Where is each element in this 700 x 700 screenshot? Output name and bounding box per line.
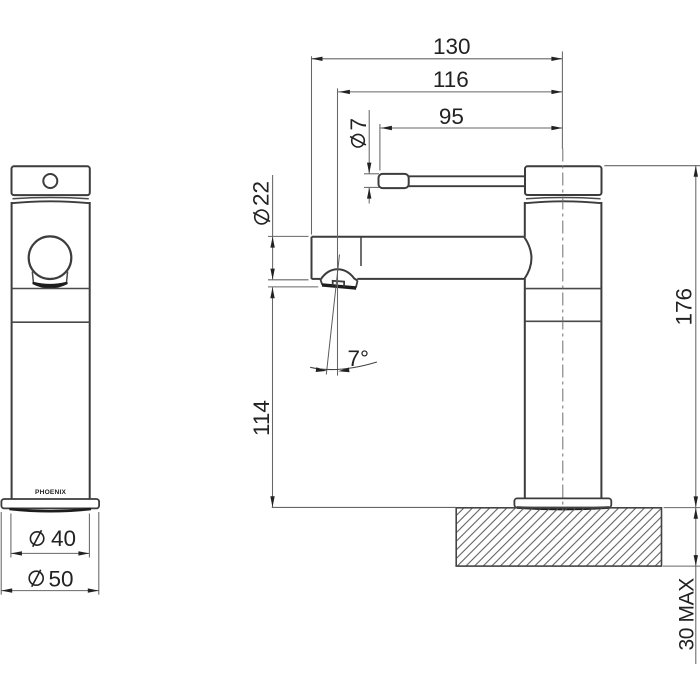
- dia7 label (rotated): [346, 118, 371, 147]
- front base plate bottom curve: [9, 509, 91, 511]
- svg-text:7: 7: [346, 118, 371, 131]
- angle 7deg tilted centerline: [326, 255, 339, 375]
- dia22 dimension line: [272, 175, 274, 280]
- dia50 dimension line: [1, 590, 99, 592]
- svg-text:114: 114: [249, 400, 274, 436]
- dim 95 line: [380, 127, 562, 129]
- aerator bottom thick: [322, 285, 356, 288]
- side body joint line 1: [525, 288, 601, 290]
- front body joint line 2: [12, 321, 90, 323]
- side view body sides: [524, 202, 526, 237]
- dim extension right common: [561, 51, 563, 148]
- svg-text:30 MAX: 30 MAX: [676, 578, 699, 651]
- spout bottom left segment: [312, 278, 321, 280]
- spout end cap line: [360, 238, 362, 267]
- svg-text:22: 22: [249, 181, 274, 206]
- lever knob: [379, 174, 409, 188]
- dia22 extension bottom: [268, 279, 309, 281]
- front view cap pin circle: [43, 174, 57, 188]
- dim 114 top extension (aerator bottom): [268, 286, 318, 288]
- front view spout circle: [29, 236, 72, 279]
- dim 116 extension left / angle vertical: [337, 88, 339, 375]
- aerator dome: [321, 269, 358, 280]
- front body joint line 1: [12, 288, 90, 290]
- bench top line: [272, 506, 457, 508]
- dim 176 line: [695, 166, 697, 508]
- side base plate: [514, 498, 611, 507]
- svg-text:PHOENIX: PHOENIX: [35, 489, 66, 496]
- spout bottom right segment: [357, 278, 524, 280]
- dia40 dimension line: [11, 552, 90, 554]
- svg-text:7°: 7°: [348, 346, 370, 371]
- dia7 extension lines: [364, 173, 379, 175]
- dim dia7 upper line: [368, 110, 370, 174]
- front view neck line: [13, 198, 89, 199]
- spout-body joint bulge: [524, 237, 531, 279]
- dim 30max line: [695, 508, 697, 664]
- bench hatch block: [456, 508, 661, 566]
- dim dia7 lower line: [368, 188, 370, 204]
- front view handle cap: [12, 166, 90, 195]
- dim 30max bottom extension: [663, 565, 700, 567]
- spout left edge: [311, 237, 313, 279]
- angle arc: [310, 362, 377, 370]
- body centerline: [562, 149, 564, 511]
- dia50 extension lines: [0, 512, 2, 595]
- dim 176 top extension: [604, 165, 700, 167]
- lever rod: [409, 175, 526, 177]
- dia50 label: [29, 571, 43, 585]
- dim 130 extension left: [311, 56, 313, 234]
- dim 114 line: [272, 287, 274, 507]
- front aerator sides: [32, 272, 33, 285]
- dim 116 line: [338, 91, 563, 93]
- front view body sides: [11, 202, 13, 499]
- aerator left edge: [320, 279, 322, 285]
- svg-text:50: 50: [49, 567, 74, 592]
- side view handle cap: [525, 166, 602, 195]
- svg-text:176: 176: [672, 288, 697, 326]
- side view body top curve: [525, 201, 601, 203]
- dia22 label (rotated): [249, 181, 274, 224]
- side view neck line: [526, 198, 601, 199]
- front base plate: [1, 499, 99, 508]
- dia40 label: [30, 532, 43, 545]
- front aerator dark lens: [34, 283, 67, 287]
- dia40 extension lines: [10, 514, 12, 558]
- svg-text:40: 40: [51, 526, 76, 551]
- dim 176/30max shared extension at bench top: [664, 507, 700, 509]
- aerator right edge: [356, 281, 358, 288]
- aerator inner box: [333, 281, 344, 287]
- svg-text:95: 95: [439, 104, 464, 129]
- dim 95 extension left: [379, 124, 381, 171]
- dia22 extension top: [268, 235, 309, 237]
- spout top: [312, 236, 524, 238]
- side base plate bottom shadow: [517, 508, 609, 510]
- svg-text:130: 130: [433, 34, 471, 59]
- svg-text:116: 116: [433, 67, 469, 92]
- side body joint line 2: [525, 320, 601, 322]
- front view body top curve: [12, 201, 90, 203]
- dim 130 line: [312, 58, 563, 60]
